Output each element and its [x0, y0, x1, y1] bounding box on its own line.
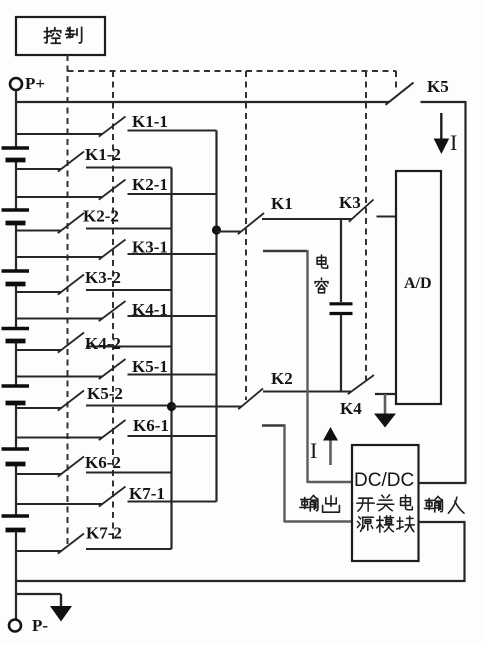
svg-text:DC/DC: DC/DC — [354, 470, 414, 491]
switch K2 — [172, 369, 352, 409]
svg-text:K7-1: K7-1 — [129, 484, 165, 503]
terminal P- — [9, 616, 48, 635]
svg-text:K5-1: K5-1 — [132, 357, 168, 376]
junction dot bus A / K2 feed — [167, 402, 176, 411]
svg-text:K3-2: K3-2 — [85, 268, 121, 287]
svg-text:K6-2: K6-2 — [85, 453, 121, 472]
current arrow I out of DC/DC — [310, 427, 338, 465]
dashed control stub to K5 — [395, 71, 397, 89]
svg-text:K4: K4 — [340, 399, 362, 418]
svg-text:K2-1: K2-1 — [132, 175, 168, 194]
switch K5 — [386, 77, 466, 105]
switch K7-2 — [16, 524, 172, 554]
switch K3-2 — [16, 268, 172, 295]
bus A vertical (even switch common) — [170, 168, 172, 550]
label output 输出 — [300, 495, 340, 512]
svg-text:P+: P+ — [25, 74, 45, 93]
switch K5-2 — [16, 384, 172, 411]
svg-text:K2-2: K2-2 — [83, 207, 119, 226]
wire P+ top row to K5 — [16, 101, 389, 103]
switch K4 — [340, 375, 397, 418]
svg-text:K5: K5 — [427, 77, 449, 96]
svg-text:K4-1: K4-1 — [132, 300, 168, 319]
wire bottom return to P- — [15, 580, 466, 582]
svg-text:K2: K2 — [271, 369, 293, 388]
ground arrow at A/D return — [374, 394, 396, 428]
terminal P+ — [10, 74, 45, 93]
battery cell B3 — [2, 271, 30, 284]
battery cell B4 — [2, 329, 30, 342]
svg-text:K1-1: K1-1 — [132, 112, 168, 131]
switch K3 — [339, 193, 396, 222]
svg-text:K3: K3 — [339, 193, 361, 212]
switch K4-2 — [16, 333, 172, 354]
label input 输入 — [424, 496, 464, 513]
switch K2-1 — [16, 175, 217, 200]
switch K5-1 — [16, 357, 217, 379]
wire DC/DC input from pack + — [419, 482, 467, 484]
svg-text:K3-1: K3-1 — [132, 238, 168, 257]
switch K6-2 — [16, 453, 172, 477]
dashed control horizontal bus — [68, 70, 397, 72]
capacitor C1 电容 — [315, 219, 352, 392]
svg-text:K1: K1 — [271, 194, 293, 213]
wire battery stack vertical — [15, 90, 17, 620]
svg-text:K5-2: K5-2 — [87, 384, 123, 403]
ground arrow at P- — [16, 594, 72, 622]
bus B vertical (odd switch common) — [215, 131, 217, 502]
A/D converter box U1 — [396, 171, 441, 404]
switch K1-2 — [16, 145, 172, 172]
DC/DC switching power module U2 — [352, 445, 419, 561]
switch K6-1 — [16, 416, 217, 440]
svg-text:K1-2: K1-2 — [85, 145, 121, 164]
svg-text:I: I — [450, 130, 457, 155]
switch K4-1 — [16, 300, 217, 321]
svg-text:I: I — [310, 438, 317, 463]
switch K2-2 — [16, 207, 172, 234]
switch K1-1 — [16, 112, 217, 137]
switch K3-1 — [16, 238, 217, 260]
current arrow I into A/D branch — [434, 113, 458, 155]
svg-text:K7-2: K7-2 — [86, 524, 122, 543]
wire branch to DC/DC (upper) — [263, 250, 352, 483]
control unit box 控制 — [16, 17, 105, 55]
battery cell B2 — [2, 210, 30, 223]
dashed control line 4 (net CTRL4) — [365, 71, 367, 380]
switch K1 — [217, 194, 353, 234]
wire DC/DC input return — [419, 521, 466, 582]
svg-text:K4-2: K4-2 — [85, 334, 121, 353]
svg-text:P-: P- — [32, 616, 48, 635]
switch K7-1 — [16, 484, 217, 507]
wire right vertical to A/D supply — [464, 101, 466, 483]
wire branch to DC/DC (lower stub) — [262, 426, 352, 523]
battery cell B6 — [2, 449, 30, 464]
battery cell B1 — [2, 148, 30, 160]
dashed control line from box down (net CTRL1) — [67, 55, 69, 545]
svg-text:A/D: A/D — [404, 275, 432, 292]
svg-text:K6-1: K6-1 — [133, 416, 169, 435]
dashed control line 2 (net CTRL2) — [112, 71, 114, 540]
junction dot bus B / K1 feed — [212, 225, 221, 234]
battery cell B7 — [2, 516, 30, 530]
dashed control line 3 (net CTRL3) — [245, 71, 247, 400]
battery cell B5 — [2, 386, 30, 403]
